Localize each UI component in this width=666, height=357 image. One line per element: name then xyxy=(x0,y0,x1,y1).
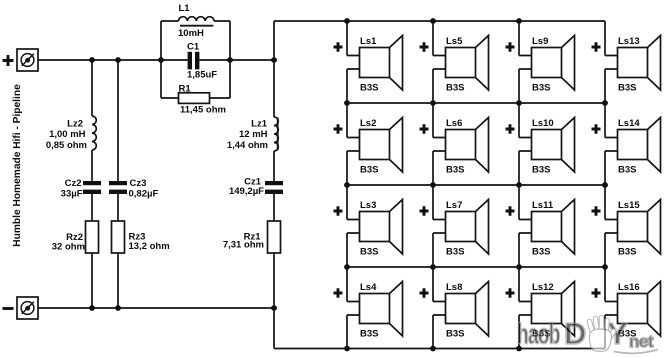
svg-text:Ls7: Ls7 xyxy=(446,200,462,211)
svg-text:Ls10: Ls10 xyxy=(532,118,554,129)
svg-text:Ls12: Ls12 xyxy=(532,282,554,293)
svg-text:Ls15: Ls15 xyxy=(618,200,640,211)
svg-text:Ls2: Ls2 xyxy=(360,118,376,129)
svg-text:B3S: B3S xyxy=(446,329,464,340)
svg-text:B3S: B3S xyxy=(618,247,636,258)
svg-text:B3S: B3S xyxy=(360,165,378,176)
svg-text:Cz3: Cz3 xyxy=(130,178,147,189)
svg-text:L1: L1 xyxy=(179,3,191,14)
svg-text:33µF: 33µF xyxy=(61,189,83,200)
svg-text:Ls6: Ls6 xyxy=(446,118,462,129)
svg-text:10mH: 10mH xyxy=(178,28,204,39)
svg-text:149,2µF: 149,2µF xyxy=(229,186,264,197)
svg-text:R1: R1 xyxy=(179,83,192,94)
svg-text:net: net xyxy=(629,332,654,351)
svg-text:B3S: B3S xyxy=(618,83,636,94)
svg-text:Ls4: Ls4 xyxy=(360,282,377,293)
svg-text:Ls8: Ls8 xyxy=(446,282,462,293)
svg-text:1,44 ohm: 1,44 ohm xyxy=(227,140,268,151)
svg-text:12 mH: 12 mH xyxy=(239,129,268,140)
svg-text:C1: C1 xyxy=(187,41,200,52)
svg-text:haob: haob xyxy=(517,319,560,351)
svg-text:B3S: B3S xyxy=(446,247,464,258)
svg-text:Ls13: Ls13 xyxy=(618,36,640,47)
svg-text:B3S: B3S xyxy=(446,165,464,176)
svg-text:B3S: B3S xyxy=(618,165,636,176)
svg-text:B3S: B3S xyxy=(360,247,378,258)
svg-text:Ls14: Ls14 xyxy=(618,118,640,129)
svg-text:Cz2: Cz2 xyxy=(65,178,82,189)
svg-text:11,45 ohm: 11,45 ohm xyxy=(180,105,226,116)
svg-text:Ls11: Ls11 xyxy=(532,200,554,211)
svg-text:32 ohm: 32 ohm xyxy=(52,242,85,253)
svg-text:Ls5: Ls5 xyxy=(446,36,463,47)
svg-text:Ls16: Ls16 xyxy=(618,282,640,293)
svg-text:Ls9: Ls9 xyxy=(532,36,548,47)
svg-text:0,85 ohm: 0,85 ohm xyxy=(46,140,87,151)
svg-text:B3S: B3S xyxy=(532,247,550,258)
svg-text:Ls3: Ls3 xyxy=(360,200,376,211)
svg-text:B3S: B3S xyxy=(532,83,550,94)
svg-text:B3S: B3S xyxy=(360,83,378,94)
svg-text:Lz2: Lz2 xyxy=(67,119,83,130)
svg-text:B3S: B3S xyxy=(360,329,378,340)
svg-text:Humble Homemade Hifi - Pipelin: Humble Homemade Hifi - Pipeline xyxy=(12,84,23,247)
svg-text:13,2 ohm: 13,2 ohm xyxy=(129,241,170,252)
svg-text:Lz1: Lz1 xyxy=(251,119,268,130)
svg-text:Ls1: Ls1 xyxy=(360,36,377,47)
svg-text:B3S: B3S xyxy=(446,83,464,94)
svg-text:7,31 ohm: 7,31 ohm xyxy=(223,240,264,251)
svg-text:0,82µF: 0,82µF xyxy=(129,189,159,200)
svg-text:1,85uF: 1,85uF xyxy=(187,70,217,81)
svg-text:1,00 mH: 1,00 mH xyxy=(49,129,86,140)
svg-text:B3S: B3S xyxy=(532,165,550,176)
